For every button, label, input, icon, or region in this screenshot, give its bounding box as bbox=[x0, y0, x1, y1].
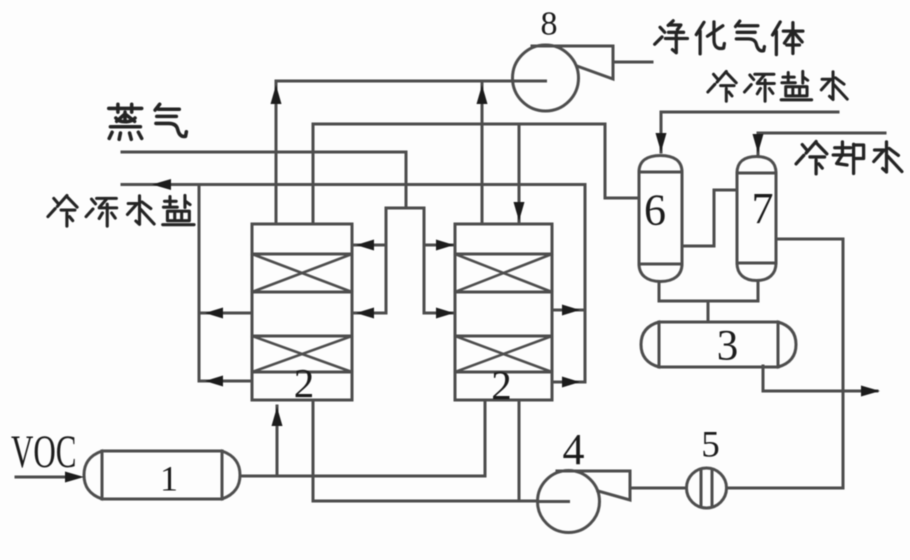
right adsorber internal trays bbox=[455, 254, 552, 372]
blower 8 volute horn bbox=[532, 46, 613, 79]
arrowhead brine out of left adsorber mid bbox=[205, 308, 223, 319]
arrowhead brine out of right adsorber bottom bbox=[562, 377, 580, 388]
pump 4 volute horn bbox=[557, 471, 630, 500]
adsorber column 2 (right) shell bbox=[455, 224, 552, 400]
wire left adsorber brine stub bottom bbox=[199, 380, 252, 383]
wire blower outlet to purified gas bbox=[613, 61, 652, 64]
wire left adsorber brine stub mid bbox=[199, 312, 252, 315]
wire vessel 3 product outlet with arrow bbox=[763, 366, 877, 391]
svg-text:VOC: VOC bbox=[11, 426, 76, 478]
wire VOC inlet line bbox=[16, 476, 64, 479]
wire pump to valve 5 bbox=[630, 487, 686, 490]
blower 8 inlet radius line bbox=[513, 80, 546, 83]
svg-text:2: 2 bbox=[294, 360, 315, 406]
label 净化气体 purified gas bbox=[655, 21, 688, 53]
label 蒸气 steam bbox=[109, 104, 142, 139]
arrowhead up left riser to blower bbox=[271, 85, 282, 104]
wire brine header left downcomer bbox=[198, 185, 201, 382]
pump 4 inlet radius line bbox=[538, 500, 569, 503]
blower 8 casing circle bbox=[513, 45, 579, 111]
wire condensate collector to vessel 3 bbox=[659, 301, 758, 322]
wire steam supply line (蒸气) bbox=[122, 152, 406, 208]
svg-text:7: 7 bbox=[752, 184, 774, 233]
wire manifold stub to left adsorber lower bbox=[352, 312, 386, 315]
svg-text:8: 8 bbox=[541, 6, 558, 43]
arrowhead cooling water down into vessel 7 bbox=[753, 134, 764, 153]
arrowhead steam into right adsorber lower bbox=[436, 308, 454, 319]
wire vessel 7 bottom outlet bbox=[757, 280, 760, 301]
svg-text:4: 4 bbox=[563, 425, 585, 474]
wire left adsorber top riser bbox=[275, 81, 278, 224]
left adsorber bed X pattern lower bbox=[252, 336, 352, 372]
left adsorber internal trays bbox=[252, 254, 352, 372]
condenser vessel 6 bbox=[639, 156, 682, 282]
valve 5 internal plates bbox=[701, 469, 712, 507]
separator vessel 3 (horizontal capsule) bbox=[641, 322, 796, 367]
wire right adsorber brine stub bottom bbox=[552, 381, 585, 384]
pump 4 casing circle bbox=[538, 471, 600, 533]
wire vessel 6 bottom outlet bbox=[658, 282, 661, 301]
arrowhead up right riser to blower bbox=[477, 85, 488, 104]
wire chilled brine return header (冷冻水盐) bbox=[122, 185, 585, 383]
wire feed branch up into left adsorber bbox=[276, 406, 279, 476]
svg-text:3: 3 bbox=[717, 323, 739, 370]
steam distribution manifold between adsorbers bbox=[386, 208, 424, 313]
right adsorber bed X pattern lower bbox=[455, 336, 552, 372]
label 冷冻水盐 chilled brine return bbox=[48, 195, 77, 226]
svg-text:1: 1 bbox=[160, 459, 178, 499]
arrowhead brine out of right adsorber mid bbox=[562, 305, 580, 316]
arrowhead steam into right adsorber upper bbox=[436, 240, 454, 251]
wire right adsorber drain bbox=[518, 399, 521, 501]
wire right adsorber brine stub mid bbox=[552, 309, 585, 312]
svg-text:6: 6 bbox=[644, 186, 666, 235]
right adsorber bed X pattern upper bbox=[455, 254, 552, 292]
svg-text:5: 5 bbox=[701, 425, 720, 466]
arrowhead steam into left adsorber upper bbox=[356, 240, 374, 251]
valve 5 rotameter circle bbox=[687, 468, 727, 508]
arrowhead brine down into vessel 6 bbox=[656, 133, 667, 152]
wire feed line vessel1 to adsorbers bbox=[240, 400, 485, 476]
arrowhead down into right adsorber top bbox=[514, 202, 525, 221]
svg-text:2: 2 bbox=[491, 362, 512, 408]
wire pump discharge riser to vessel 7 bbox=[776, 239, 843, 488]
wire desorbed vapour line to condenser 6 bbox=[313, 124, 639, 224]
wire chilled brine feed (冷冻盐水) to vessel 6 bbox=[661, 112, 838, 152]
wire purified gas header to blower bbox=[276, 80, 545, 83]
label 冷冻盐水 chilled brine supply bbox=[708, 71, 736, 101]
arrowhead brine out of left adsorber bottom bbox=[205, 376, 223, 387]
wire manifold stub to right adsorber lower bbox=[424, 312, 455, 315]
wire connector vessel 6 to vessel 7 bbox=[682, 190, 737, 246]
wire left adsorber drain to pump bbox=[313, 400, 568, 501]
wire manifold stub to left adsorber upper bbox=[352, 244, 386, 247]
wire valve 5 to riser bbox=[727, 487, 843, 490]
wire branch down into right adsorber top bbox=[518, 124, 521, 223]
vessel 1 VOC buffer tank (horizontal capsule) bbox=[84, 451, 240, 499]
arrowhead brine header exit left bbox=[152, 179, 171, 190]
wire right adsorber top riser bbox=[481, 81, 484, 223]
wire manifold stub to right adsorber upper bbox=[424, 244, 455, 247]
wire cooling water (冷却水) to vessel 7 bbox=[758, 133, 885, 154]
adsorber column 2 (left) shell bbox=[252, 224, 352, 400]
arrowhead VOC inlet bbox=[65, 472, 84, 483]
arrowhead final product outlet bbox=[861, 386, 880, 397]
condenser vessel 7 bbox=[737, 157, 776, 281]
left adsorber bed X pattern upper bbox=[252, 254, 352, 292]
arrowhead feed up into left adsorber bbox=[272, 407, 283, 426]
arrowhead steam into left adsorber lower bbox=[356, 308, 374, 319]
label 冷却水 cooling water bbox=[796, 142, 827, 174]
